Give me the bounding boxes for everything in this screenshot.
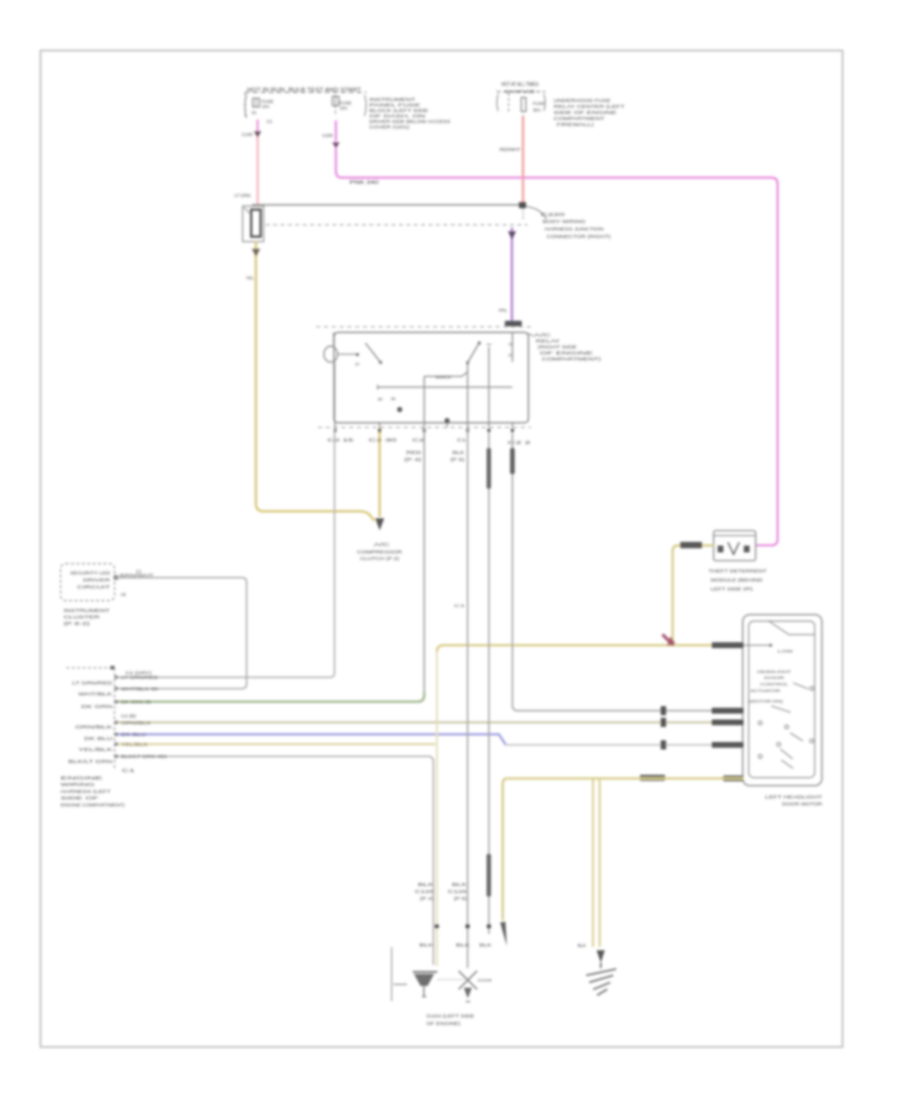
fuse F3 labels bbox=[533, 101, 545, 112]
relay internal column x467 bbox=[467, 363, 469, 423]
fuse F1 value labels bbox=[252, 99, 274, 124]
svg-text:A6: A6 bbox=[121, 592, 127, 597]
svg-text:COVER G201): COVER G201) bbox=[369, 124, 410, 129]
wire: red from maxifuse bbox=[522, 116, 524, 204]
labels near bottom verticals bbox=[415, 882, 492, 948]
relay switch arm 2 bbox=[468, 343, 480, 363]
svg-text:SIDE OF ENGINE: SIDE OF ENGINE bbox=[554, 110, 617, 115]
text block: underhood center location (5 lines) bbox=[554, 98, 625, 127]
svg-text:DK GRN: DK GRN bbox=[81, 704, 112, 709]
junction dot (coil rail) bbox=[397, 407, 402, 412]
svg-text:C2 2: C2 2 bbox=[508, 440, 533, 445]
svg-text:FUSE: FUSE bbox=[533, 101, 545, 106]
svg-text:BLK: BLK bbox=[452, 450, 464, 455]
svg-text:BRN/WHT: BRN/WHT bbox=[120, 573, 155, 578]
svg-text:(P 4): (P 4) bbox=[420, 896, 435, 901]
svg-text:C220: C220 bbox=[541, 212, 566, 217]
svg-text:(RIGHT SIDE: (RIGHT SIDE bbox=[538, 345, 577, 350]
wire: relay pin16 down and left to connector bbox=[117, 427, 335, 677]
svg-text:BLK: BLK bbox=[452, 882, 467, 887]
svg-text:BODY WIRING: BODY WIRING bbox=[543, 219, 587, 224]
relay contact feed bbox=[338, 353, 357, 355]
svg-text:C1: C1 bbox=[267, 119, 273, 124]
fuse F2 value labels bbox=[340, 100, 352, 110]
relay block dashed boundary bottom bbox=[318, 426, 531, 428]
svg-text:(P 8-2): (P 8-2) bbox=[64, 621, 91, 626]
text: ground name bbox=[426, 1014, 474, 1026]
wire: yellow bottom run to module bbox=[508, 777, 744, 779]
relay bottom pin stubs bbox=[335, 423, 512, 428]
headlight door module inner box bbox=[749, 621, 815, 778]
svg-text:BLK: BLK bbox=[479, 943, 491, 948]
svg-text:CONNECTOR (RIGHT): CONNECTOR (RIGHT) bbox=[547, 234, 612, 239]
svg-text:PPL: PPL bbox=[499, 308, 508, 313]
instrument cluster dashed box bbox=[61, 564, 115, 601]
svg-text:A/C: A/C bbox=[374, 542, 390, 547]
relay internal coil rail bbox=[378, 386, 513, 388]
wire: relay pin down to ground (x467) bbox=[467, 427, 469, 968]
relay internal column x489 bbox=[488, 347, 490, 423]
connector: instrument panel fuse block (top left, dashed) bbox=[245, 92, 367, 119]
relay block dashed boundary top bbox=[316, 326, 531, 328]
in-line connector arrow on pink wire bbox=[254, 131, 261, 137]
svg-text:BLK/LT GRN 451: BLK/LT GRN 451 bbox=[121, 754, 168, 759]
dashed bus line below rail bbox=[266, 224, 528, 226]
module internal details bbox=[744, 621, 815, 769]
wire: relay pin down (x489) with shield bars bbox=[488, 433, 490, 934]
svg-text:OF DASH, ON: OF DASH, ON bbox=[369, 114, 425, 119]
svg-text:BLK: BLK bbox=[419, 943, 433, 948]
off-page arrow (bottom left yellow) bbox=[500, 922, 507, 946]
svg-text:85: 85 bbox=[378, 397, 383, 402]
svg-text:LOW: LOW bbox=[778, 648, 793, 653]
in-line connector arrow on magenta wire bbox=[332, 142, 339, 148]
svg-text:INSTRUMENT: INSTRUMENT bbox=[64, 608, 110, 613]
svg-text:RED/WHT: RED/WHT bbox=[500, 147, 521, 152]
svg-text:ORN/BLK: ORN/BLK bbox=[121, 720, 151, 725]
fuse box component (left small) bbox=[243, 206, 264, 242]
svg-text:HOT AT ALL TIMES: HOT AT ALL TIMES bbox=[502, 82, 540, 88]
svg-text:C1: C1 bbox=[122, 768, 136, 773]
svg-text:C2 30: C2 30 bbox=[369, 438, 398, 443]
dotted tie between grounds bbox=[438, 979, 464, 981]
svg-text:UNDERHOOD FUSE: UNDERHOOD FUSE bbox=[554, 98, 611, 103]
wire: yellow from fuse box to compressor splice bbox=[256, 242, 375, 522]
relay pin labels bbox=[327, 438, 532, 462]
wire: blue bus with jog bbox=[117, 734, 506, 745]
svg-text:HARNESS (LEFT: HARNESS (LEFT bbox=[61, 789, 111, 794]
fuse F1 symbol bbox=[253, 98, 260, 107]
svg-text:BLK: BLK bbox=[456, 943, 470, 948]
svg-text:BLK: BLK bbox=[578, 943, 586, 948]
ground area: junction ticks bbox=[435, 924, 491, 928]
svg-text:DRIVER SIDE BELOW ACCESS: DRIVER SIDE BELOW ACCESS bbox=[369, 119, 450, 124]
cluster outer labels bbox=[64, 608, 110, 626]
relay internal column x512 bbox=[511, 332, 513, 362]
svg-text:SECURITY LED: SECURITY LED bbox=[70, 570, 110, 575]
svg-text:RELAY: RELAY bbox=[536, 339, 560, 344]
svg-text:RED: RED bbox=[406, 450, 421, 455]
connector bar: purple pin into relay block bbox=[505, 321, 522, 327]
svg-text:LEFT HEADLIGHT: LEFT HEADLIGHT bbox=[765, 795, 822, 800]
fuse F3 symbol (vertical) bbox=[521, 98, 526, 112]
left connector C2 dashed bbox=[66, 667, 110, 669]
svg-text:C1: C1 bbox=[457, 438, 467, 443]
wire: khaki bus bbox=[117, 721, 712, 723]
svg-text:HOT IN RUN, BULB TEST AND STAR: HOT IN RUN, BULB TEST AND START bbox=[247, 87, 362, 93]
leader + text block: relay location (5 lines) bbox=[528, 333, 533, 336]
wire: yellow from theft module down to splice bbox=[673, 546, 714, 646]
svg-text:DK BLU: DK BLU bbox=[84, 736, 112, 741]
in-line connector arrow on yellow wire bbox=[252, 249, 260, 257]
svg-text:C1: C1 bbox=[454, 603, 467, 608]
svg-text:SIDE OF: SIDE OF bbox=[61, 796, 100, 801]
svg-text:15A: 15A bbox=[340, 105, 348, 110]
svg-text:BLK: BLK bbox=[418, 882, 434, 887]
wire: relay pin down then right to module (x512) bbox=[512, 433, 711, 711]
text block: junction connector label (4 lines) bbox=[541, 212, 612, 239]
fuse F2 symbol bbox=[332, 97, 339, 106]
wire: purple drop to relay block bbox=[511, 228, 513, 322]
svg-text:MAXIFUSE: MAXIFUSE bbox=[505, 89, 535, 94]
svg-text:CLUTCH (P 2): CLUTCH (P 2) bbox=[360, 556, 400, 561]
relay U1 outline bbox=[334, 332, 528, 422]
cluster wire pin mark bbox=[114, 575, 118, 579]
svg-text:C100: C100 bbox=[242, 132, 253, 137]
wire: cluster loop bbox=[115, 578, 247, 689]
svg-text:(P 6): (P 6) bbox=[450, 457, 465, 462]
svg-text:(P 4): (P 4) bbox=[404, 457, 422, 462]
svg-text:OF ENGINE): OF ENGINE) bbox=[426, 1021, 461, 1026]
svg-text:WHT/BLK: WHT/BLK bbox=[78, 692, 112, 697]
svg-text:C2 (B): C2 (B) bbox=[121, 713, 137, 718]
svg-text:87: 87 bbox=[355, 363, 359, 367]
svg-text:DOOR: DOOR bbox=[764, 675, 784, 680]
svg-text:HARNESS JUNCTION: HARNESS JUNCTION bbox=[545, 227, 604, 232]
in-line connector ticks at x663 bbox=[661, 706, 667, 749]
svg-text:DOOR MOTOR: DOOR MOTOR bbox=[782, 802, 823, 807]
wire: magenta from fuse 15A bbox=[335, 121, 337, 142]
svg-text:DRIVER: DRIVER bbox=[83, 577, 110, 582]
svg-text:COMPARTMENT: COMPARTMENT bbox=[554, 116, 605, 121]
relay internal wire 87a bbox=[424, 372, 467, 377]
relay bottom pin ticks bbox=[334, 429, 514, 433]
connector pin nubs bbox=[115, 676, 118, 759]
svg-text:BLOCK (LEFT SIDE: BLOCK (LEFT SIDE bbox=[369, 108, 428, 113]
wire: green bus bbox=[117, 692, 424, 702]
wire: yellow double drop to ground bbox=[592, 778, 594, 947]
text block: theft module label bbox=[709, 568, 768, 591]
svg-text:ENGINE: ENGINE bbox=[61, 776, 103, 781]
wire: gray bus to ground bbox=[117, 756, 433, 965]
svg-text:INSTRUMENT: INSTRUMENT bbox=[369, 97, 415, 102]
svg-text:CLUSTER: CLUSTER bbox=[64, 615, 100, 620]
relay coil bbox=[324, 346, 338, 362]
svg-text:DK GRN 35: DK GRN 35 bbox=[121, 700, 152, 705]
svg-text:86: 86 bbox=[391, 396, 396, 401]
svg-text:LT GRN/RED: LT GRN/RED bbox=[121, 675, 158, 680]
svg-text:RELAY CENTER (LEFT: RELAY CENTER (LEFT bbox=[554, 104, 625, 109]
connector bar on theft yellow wire bbox=[680, 542, 702, 548]
svg-text:21: 21 bbox=[252, 110, 258, 115]
svg-text:G104: G104 bbox=[478, 978, 493, 983]
svg-text:LT GRN/RED: LT GRN/RED bbox=[72, 681, 112, 686]
svg-text:C126: C126 bbox=[448, 889, 468, 894]
svg-text:LT GRN: LT GRN bbox=[234, 193, 250, 198]
svg-text:ACTUATOR: ACTUATOR bbox=[750, 688, 780, 693]
svg-text:YEL/BLK: YEL/BLK bbox=[121, 742, 148, 747]
splice arrow (red) at yellow junction bbox=[663, 635, 672, 644]
ground G1 (trapezoid) bbox=[413, 971, 438, 973]
svg-text:PNK 340: PNK 340 bbox=[350, 180, 379, 186]
junction node at rail/red wire bbox=[519, 202, 526, 208]
pin stub below junction bbox=[522, 208, 524, 219]
svg-text:PANEL FUSE: PANEL FUSE bbox=[369, 103, 420, 108]
svg-text:FIREWALL): FIREWALL) bbox=[557, 122, 595, 127]
wire: yellow corner down to off-page arrow bbox=[503, 778, 508, 920]
ground symbol G (yellow drop) bbox=[586, 963, 616, 996]
wire: pink from fuse 21 bbox=[256, 120, 258, 137]
svg-text:HEADLIGHT: HEADLIGHT bbox=[757, 669, 792, 674]
svg-text:30: 30 bbox=[509, 342, 513, 346]
module internal texts bbox=[749, 648, 793, 703]
wire: relay pin down (becomes green) bbox=[423, 427, 425, 693]
connector pin labels (left) bbox=[68, 681, 112, 765]
svg-text:ENGINE COMPARTMENT): ENGINE COMPARTMENT) bbox=[61, 802, 126, 807]
svg-text:G104 (LEFT SIDE: G104 (LEFT SIDE bbox=[426, 1014, 474, 1019]
wire: gray after blue jog bbox=[506, 744, 712, 746]
svg-text:CONTROL: CONTROL bbox=[760, 682, 789, 687]
headlight door module outer box bbox=[743, 615, 822, 786]
svg-text:(MOTOR DN): (MOTOR DN) bbox=[749, 699, 784, 704]
svg-text:87: 87 bbox=[509, 353, 513, 357]
svg-text:(P 6): (P 6) bbox=[454, 896, 468, 901]
connector pin stubs bbox=[115, 677, 119, 756]
svg-text:OF ENGINE: OF ENGINE bbox=[540, 351, 593, 356]
text block: compressor label bbox=[357, 542, 402, 561]
wire: yellow horizontal to door module bbox=[437, 645, 712, 652]
svg-text:CIRCUIT: CIRCUIT bbox=[77, 584, 111, 589]
text block: module name below bbox=[765, 795, 823, 807]
theft deterrent module box bbox=[714, 531, 756, 561]
svg-text:WHT/BLK 50: WHT/BLK 50 bbox=[121, 686, 159, 691]
svg-text:BLK/LT GRN: BLK/LT GRN bbox=[68, 759, 112, 764]
svg-text:MODULE (BEHIND: MODULE (BEHIND bbox=[711, 577, 763, 582]
svg-text:C125: C125 bbox=[415, 889, 435, 894]
text block: harness label below connector bbox=[61, 776, 126, 808]
svg-text:YEL/BLK: YEL/BLK bbox=[78, 747, 112, 752]
wire: pale khaki bus bbox=[117, 743, 435, 745]
svg-text:C200: C200 bbox=[322, 133, 333, 138]
svg-text:COMPRESSOR: COMPRESSOR bbox=[357, 549, 402, 554]
svg-text:30A: 30A bbox=[533, 107, 541, 112]
svg-text:ORN/BLK: ORN/BLK bbox=[75, 725, 112, 730]
connector: underhood fuse-relay center (top right, dashed) bbox=[497, 92, 546, 112]
junction dot (pin 447) bbox=[445, 418, 450, 423]
svg-text:A/C: A/C bbox=[534, 333, 551, 338]
text block: fuse block location (6 lines) bbox=[369, 97, 450, 129]
cluster inner labels bbox=[70, 570, 111, 589]
svg-text:LEFT SIDE I/P): LEFT SIDE I/P) bbox=[711, 587, 754, 592]
svg-text:C2 16: C2 16 bbox=[327, 438, 354, 443]
svg-text:THEFT DETERRENT: THEFT DETERRENT bbox=[709, 568, 768, 573]
svg-text:COMPARTMENT): COMPARTMENT) bbox=[542, 357, 602, 362]
in-line connector arrow on purple wire bbox=[508, 231, 516, 239]
wire name labels printed on wires bbox=[121, 675, 168, 759]
svg-text:WIRING: WIRING bbox=[61, 782, 96, 787]
ground splice arrow bbox=[597, 950, 605, 962]
wire: gray rail to junction bbox=[252, 204, 523, 206]
wire: yellow stub from relay pin bbox=[378, 427, 380, 517]
leader line to junction label bbox=[526, 207, 546, 220]
left ground stake bbox=[391, 947, 393, 1001]
off-page connector arrow (compressor) bbox=[375, 518, 384, 530]
svg-text:10A: 10A bbox=[262, 104, 270, 109]
relay switch arm 1 bbox=[365, 343, 380, 362]
svg-text:DK BLU: DK BLU bbox=[121, 732, 146, 737]
svg-text:YEL: YEL bbox=[246, 275, 255, 280]
module connector bars bbox=[640, 642, 744, 781]
ground G2 (X splice) bbox=[459, 971, 478, 990]
svg-text:MAX: MAX bbox=[435, 375, 452, 380]
wire: pale khaki vertical (bus to ground / up to headlight feed) bbox=[436, 651, 438, 967]
